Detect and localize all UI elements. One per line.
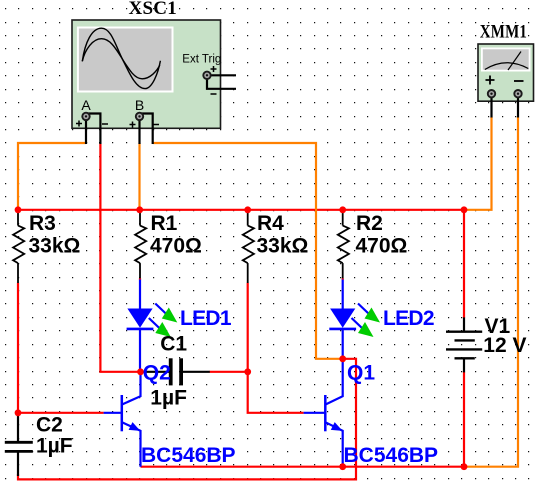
wire Q2 base node to Q2 base — [18, 412, 104, 414]
battery V1 — [446, 317, 482, 372]
wire R4 bottom to C1/Q1-base node — [247, 283, 249, 372]
multimeter XMM1 body — [478, 44, 534, 101]
wire emitter ground rail — [141, 466, 465, 468]
wire scope A+ stub — [85, 120, 87, 145]
wire Q1 collector node to C2 bottom (bottom-left rail) — [18, 359, 356, 480]
wire scope A- stub — [87, 114, 100, 145]
scope terminal A — [82, 113, 89, 120]
svg-text:BC546BP: BC546BP — [141, 444, 236, 467]
resistor R1 — [135, 210, 146, 278]
scope plus ext trig — [211, 66, 217, 72]
svg-text:470Ω: 470Ω — [150, 234, 202, 257]
junction Q2 base node — [15, 409, 22, 416]
junction rail R4 — [244, 206, 251, 213]
wire scope B+ stub — [138, 120, 140, 145]
svg-text:XSC1: XSC1 — [129, 0, 178, 19]
capacitor C1 — [143, 358, 210, 385]
svg-text:Q1: Q1 — [347, 362, 375, 385]
LED LED2 — [329, 280, 380, 359]
svg-text:R2: R2 — [356, 212, 383, 235]
capacitor C2 — [5, 414, 33, 476]
junction Q2 collector node — [137, 368, 144, 375]
wire XMM1 right stub — [517, 97, 519, 118]
svg-text:B: B — [135, 97, 144, 113]
wire R4/C1 node to Q1 base — [248, 372, 304, 413]
resistor R3 — [13, 210, 24, 283]
scope minus B — [153, 124, 159, 126]
XMM1 terminal + — [488, 90, 495, 97]
LED LED1 — [127, 280, 178, 372]
oscilloscope XSC1 body — [72, 20, 221, 128]
svg-text:Ext Trig: Ext Trig — [182, 54, 221, 66]
svg-text:R1: R1 — [151, 212, 178, 235]
wire ext trig + stub — [210, 74, 236, 76]
scope plus B — [130, 122, 136, 128]
junction Q1 emitter ground — [339, 463, 346, 470]
svg-text:33kΩ: 33kΩ — [29, 234, 81, 257]
resistor R2 — [338, 210, 349, 278]
resistor R4 — [243, 210, 254, 283]
svg-text:470Ω: 470Ω — [356, 234, 408, 257]
svg-text:LED1: LED1 — [180, 307, 232, 330]
wire scope B- stub — [141, 114, 153, 145]
junction R4 C1 Q1-base node — [244, 368, 251, 375]
XMM1 terminal - — [514, 90, 521, 97]
svg-text:C1: C1 — [160, 332, 187, 355]
svg-text:BC546BP: BC546BP — [344, 444, 439, 467]
svg-text:XMM1: XMM1 — [480, 22, 527, 42]
svg-text:R4: R4 — [257, 212, 284, 235]
wire battery V1 bottom — [463, 372, 465, 467]
svg-text:C2: C2 — [36, 414, 63, 437]
wire C1 right to R4/Q1-base node — [210, 371, 248, 373]
junction rail battery — [461, 206, 468, 213]
wire joint R1 to LED1 — [139, 278, 141, 280]
XMM1 minus — [514, 80, 524, 82]
wire scope B- probe to Q1 collector node (orange) — [153, 143, 343, 359]
scope minus ext trig — [211, 93, 217, 95]
svg-text:Q2: Q2 — [143, 362, 171, 385]
junction rail R3 — [15, 206, 22, 213]
junction battery bottom — [461, 463, 468, 470]
scope terminal Ext Trig — [203, 72, 210, 79]
scope terminal B — [136, 113, 143, 120]
svg-text:1µF: 1µF — [36, 435, 73, 458]
wire joint R2 to LED2 — [342, 278, 344, 280]
transistor Q2 — [104, 372, 141, 467]
XMM1 plus — [486, 76, 495, 85]
wire XMM1 - terminal to ground rail (orange) — [464, 117, 518, 467]
wire XMM1 left stub — [490, 97, 492, 118]
scope minus A — [102, 123, 108, 125]
wire scope A- to Q2 collector node — [100, 143, 140, 372]
wire XMM1 + terminal to rail (orange) — [464, 117, 492, 210]
svg-text:R3: R3 — [29, 212, 56, 235]
svg-text:12 V: 12 V — [483, 334, 526, 357]
transistor Q1 — [304, 359, 343, 467]
wire +12V rail — [18, 209, 464, 211]
scope plus A — [76, 121, 82, 127]
svg-text:33kΩ: 33kΩ — [257, 234, 309, 257]
svg-text:LED2: LED2 — [383, 307, 434, 330]
wire scope A+ probe to rail (orange) — [18, 143, 86, 210]
svg-text:A: A — [81, 97, 91, 113]
wire ext trig - stub — [207, 79, 236, 89]
svg-text:1µF: 1µF — [150, 386, 187, 409]
junction Q1 collector node — [339, 355, 346, 362]
wire scope B+ probe to rail (orange) — [138, 143, 140, 210]
junction rail R2 — [339, 206, 346, 213]
wire battery V1 top — [463, 210, 465, 318]
wire R3 bottom to Q2 base node — [17, 283, 19, 413]
junction rail R1 — [136, 206, 143, 213]
